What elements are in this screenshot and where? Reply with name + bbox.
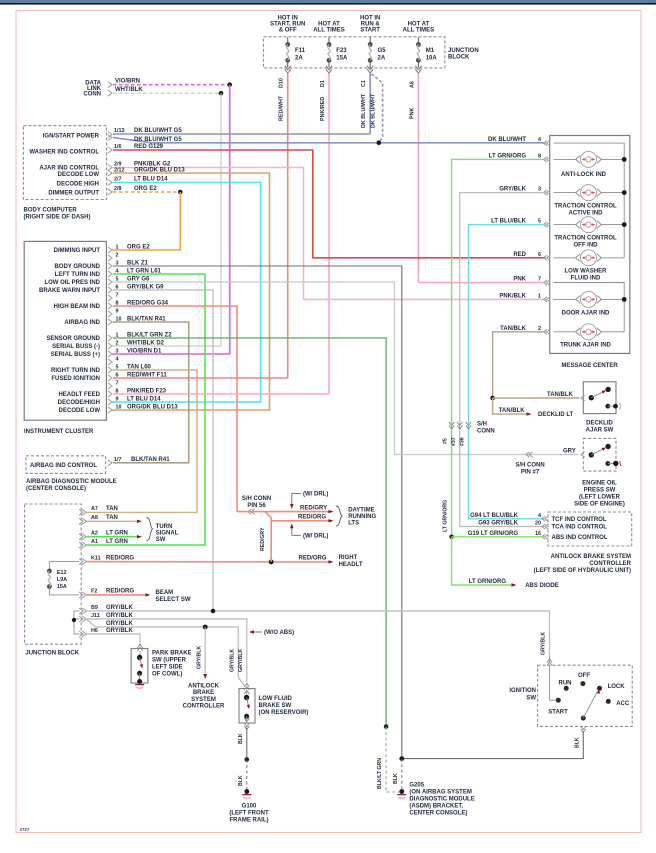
junction block B9 J11 H6 bracket bbox=[73, 611, 75, 634]
message center internal bus pin 7 bbox=[554, 283, 625, 332]
ground G205 bbox=[399, 789, 404, 794]
wire ORG E2 solid to cluster dimming input bbox=[112, 192, 180, 250]
node BLK bbox=[245, 757, 250, 762]
svg-text:DECKLID LT: DECKLID LT bbox=[538, 412, 574, 418]
svg-text:GRY/BLK: GRY/BLK bbox=[106, 613, 133, 619]
svg-text:5: 5 bbox=[538, 219, 541, 225]
svg-text:1/13: 1/13 bbox=[114, 128, 125, 134]
svg-text:RED G129: RED G129 bbox=[134, 144, 164, 150]
svg-text:LT GRN: LT GRN bbox=[106, 531, 128, 537]
svg-text:SW (UPPER: SW (UPPER bbox=[152, 658, 187, 664]
body computer box bbox=[23, 126, 106, 200]
svg-text:IGNITION: IGNITION bbox=[509, 688, 536, 694]
svg-text:DECKLID: DECKLID bbox=[586, 421, 613, 427]
wire GRY/BLK G9 from cluster brake warn to B9 junction bbox=[113, 290, 213, 611]
svg-text:GRY/BLK: GRY/BLK bbox=[106, 621, 133, 627]
decklid ajar sw box bbox=[583, 382, 616, 414]
svg-text:WASHER IND CONTROL: WASHER IND CONTROL bbox=[29, 150, 99, 156]
svg-text:VIO/BRN: VIO/BRN bbox=[115, 79, 140, 85]
svg-text:SW: SW bbox=[526, 696, 536, 702]
wire TAN L60 from cluster right turn to junction block A7 bbox=[87, 370, 198, 512]
svg-text:2: 2 bbox=[116, 340, 119, 346]
svg-text:JUNCTION: JUNCTION bbox=[448, 48, 479, 54]
svg-text:ENGINE OIL: ENGINE OIL bbox=[582, 481, 617, 487]
ignition sw internals bbox=[550, 665, 556, 700]
wire LT BLU D14 from body computer to cluster decode high bbox=[112, 183, 261, 403]
wire DK BLU/WHT dashed branch from fuse G5 bbox=[372, 74, 383, 143]
svg-text:GRY/BLK: GRY/BLK bbox=[499, 187, 526, 193]
instrument cluster box bbox=[24, 241, 106, 420]
svg-text:RED/ORG: RED/ORG bbox=[106, 555, 134, 561]
svg-text:(ASDM) BRACKET,: (ASDM) BRACKET, bbox=[409, 804, 463, 810]
junction block internal fuse E12 L9A 15A bbox=[49, 561, 79, 563]
instrument cluster connector 1 pins bbox=[108, 247, 112, 253]
wire TAN/BLK from message center to decklid ajar sw bbox=[493, 332, 546, 398]
svg-text:2: 2 bbox=[116, 252, 119, 258]
svg-text:2/12: 2/12 bbox=[114, 167, 125, 173]
svg-text:DK BLU/WHT G5: DK BLU/WHT G5 bbox=[134, 137, 182, 143]
wire BLK/TAN R41 from cluster airbag ind to airbag module bbox=[113, 322, 189, 463]
low washer fluid ind lamp bbox=[554, 257, 577, 259]
svg-text:4: 4 bbox=[538, 137, 541, 143]
svg-text:A2: A2 bbox=[91, 531, 98, 537]
svg-text:JUNCTION BLOCK: JUNCTION BLOCK bbox=[25, 651, 79, 657]
svg-text:MESSAGE CENTER: MESSAGE CENTER bbox=[561, 363, 618, 369]
wire TAN/BLK to decklid sw bbox=[493, 397, 580, 399]
svg-text:10: 10 bbox=[116, 404, 122, 410]
wire BLK dashed to G100 bbox=[246, 760, 248, 792]
svg-text:GRY/BLK: GRY/BLK bbox=[541, 632, 547, 655]
svg-text:PARK BRAKE: PARK BRAKE bbox=[152, 651, 192, 657]
svg-text:FRAME RAIL): FRAME RAIL) bbox=[230, 818, 269, 824]
svg-text:F2: F2 bbox=[91, 589, 97, 595]
svg-text:GRY/BLK: GRY/BLK bbox=[229, 649, 235, 672]
svg-text:G100: G100 bbox=[242, 804, 257, 810]
wire TAN/BLK branch to decklid lt bbox=[493, 398, 527, 414]
svg-text:INSTRUMENT CLUSTER: INSTRUMENT CLUSTER bbox=[24, 429, 94, 435]
svg-text:(W/ DRL): (W/ DRL) bbox=[303, 534, 328, 540]
svg-text:ABS IND CONTROL: ABS IND CONTROL bbox=[552, 535, 608, 541]
svg-text:DK BLU/WHT: DK BLU/WHT bbox=[370, 93, 376, 128]
svg-text:BEAM: BEAM bbox=[156, 590, 174, 596]
svg-text:RED/ORG: RED/ORG bbox=[299, 556, 327, 562]
node on ORG E2 bbox=[178, 190, 183, 195]
svg-text:FUSED IGNITION: FUSED IGNITION bbox=[51, 376, 100, 382]
wire VIO/BRN D1 vertical to cluster bbox=[112, 85, 230, 354]
wire F2 RED/ORG to beam select sw bbox=[87, 594, 147, 596]
wire PNK/BLK G2 from body computer to message center door ajar bbox=[113, 168, 546, 300]
svg-text:HEADLT FEED: HEADLT FEED bbox=[58, 392, 100, 398]
svg-text:SW: SW bbox=[156, 537, 166, 543]
svg-text:LOW WASHER: LOW WASHER bbox=[565, 269, 608, 275]
svg-text:ACC: ACC bbox=[616, 701, 630, 707]
svg-text:A8: A8 bbox=[91, 515, 98, 521]
wire GRY/BLK branch to low fluid brake sw bbox=[87, 619, 245, 686]
svg-text:OFF IND: OFF IND bbox=[574, 243, 599, 249]
message center internal bus pin 4 bbox=[554, 143, 625, 258]
svg-text:DECODE/HIGH: DECODE/HIGH bbox=[58, 400, 100, 406]
svg-text:AIRBAG IND: AIRBAG IND bbox=[64, 320, 100, 326]
svg-text:TAN: TAN bbox=[106, 515, 118, 521]
svg-text:GRY/BLK: GRY/BLK bbox=[106, 605, 133, 611]
message center box bbox=[550, 136, 630, 354]
svg-text:DECODE LOW: DECODE LOW bbox=[58, 172, 100, 178]
svg-text:RED: RED bbox=[513, 252, 526, 258]
S/H conn on three ABS wires bbox=[449, 422, 454, 426]
svg-text:PNK/BLK: PNK/BLK bbox=[499, 293, 526, 299]
turn signal sw brace bbox=[147, 518, 153, 541]
svg-text:CENTER CONSOLE): CENTER CONSOLE) bbox=[409, 811, 467, 817]
svg-text:VIO/BRN D1: VIO/BRN D1 bbox=[127, 348, 162, 354]
wire DK BLU/WHT C1 from fuse G5 bbox=[369, 74, 371, 135]
svg-text:9: 9 bbox=[116, 396, 119, 402]
svg-text:BLOCK: BLOCK bbox=[448, 55, 470, 61]
W/ DRL annotation lower bbox=[292, 534, 301, 536]
svg-text:SERIAL BUSS (+): SERIAL BUSS (+) bbox=[51, 352, 100, 358]
svg-text:LTS: LTS bbox=[348, 521, 359, 527]
svg-text:PNK/BLK G2: PNK/BLK G2 bbox=[134, 161, 171, 167]
wire J11 GRY/BLK to low fluid brake sw bbox=[87, 619, 247, 683]
svg-text:CONTROLLER: CONTROLLER bbox=[183, 704, 225, 710]
wire H6 GRY/BLK to park brake sw bbox=[87, 634, 141, 646]
svg-text:BLK Z1: BLK Z1 bbox=[127, 260, 149, 266]
svg-text:LOW FLUID: LOW FLUID bbox=[259, 696, 293, 702]
svg-text:7: 7 bbox=[116, 292, 119, 298]
svg-text:START: START bbox=[360, 28, 380, 34]
wire WHT/BLK from data link conn bbox=[113, 92, 221, 94]
svg-text:SYSTEM: SYSTEM bbox=[191, 697, 216, 703]
node RED/ORG junction bbox=[269, 560, 274, 565]
park brake sw box bbox=[137, 648, 142, 652]
svg-text:DAYTIME: DAYTIME bbox=[348, 508, 374, 514]
svg-text:DECODE HIGH: DECODE HIGH bbox=[57, 182, 99, 188]
svg-text:CONN: CONN bbox=[477, 429, 495, 435]
svg-text:GRY/BLK: GRY/BLK bbox=[106, 628, 133, 634]
wire VIO/BRN from data link conn bbox=[113, 84, 230, 86]
svg-text:SENSOR GROUND: SENSOR GROUND bbox=[46, 336, 100, 342]
svg-text:LT GRN/ORG: LT GRN/ORG bbox=[489, 153, 527, 159]
svg-text:2: 2 bbox=[538, 326, 541, 332]
svg-text:SIDE OF ENGINE): SIDE OF ENGINE) bbox=[574, 502, 625, 508]
wire BLK Z1 from cluster body ground to G205 bbox=[113, 266, 402, 759]
svg-text:ORG/DK BLU D13: ORG/DK BLU D13 bbox=[134, 167, 185, 173]
wire RED/WHT D10 from fuse F11 bbox=[287, 74, 289, 379]
wire K11 RED/ORG to right headlamp bbox=[87, 561, 330, 563]
wire PNK A6 from fuse M1 bbox=[417, 74, 419, 283]
svg-text:DIMMING INPUT: DIMMING INPUT bbox=[54, 248, 101, 254]
svg-text:TCA IND CONTROL: TCA IND CONTROL bbox=[552, 525, 608, 531]
wire RED/ORG to daytime running lts bbox=[265, 512, 271, 562]
wire DK BLU/WHT G5 lower from body computer to message center bbox=[113, 138, 546, 143]
svg-text:BLK/LT GRN: BLK/LT GRN bbox=[377, 758, 383, 789]
svg-text:AIRBAG DIAGNOSTIC MODULE: AIRBAG DIAGNOSTIC MODULE bbox=[26, 479, 117, 485]
svg-text:M1: M1 bbox=[426, 48, 435, 54]
svg-text:3: 3 bbox=[538, 187, 541, 193]
svg-text:BLK: BLK bbox=[574, 737, 580, 748]
node B9/G9 junction bbox=[211, 609, 216, 614]
svg-text:DOOR AJAR IND: DOOR AJAR IND bbox=[562, 311, 610, 317]
svg-text:S/H CONN: S/H CONN bbox=[515, 463, 544, 469]
wire BLK below low fluid sw to G100 bbox=[244, 723, 249, 727]
svg-text:1/6: 1/6 bbox=[114, 144, 122, 150]
svg-text:DIMMER OUTPUT: DIMMER OUTPUT bbox=[48, 191, 99, 197]
svg-text:LOW OIL PRES IND: LOW OIL PRES IND bbox=[44, 280, 100, 286]
svg-text:1/7: 1/7 bbox=[114, 457, 122, 463]
svg-text:2/7: 2/7 bbox=[114, 176, 122, 182]
svg-text:L9A: L9A bbox=[57, 577, 67, 583]
wire DK BLU/WHT G5 upper from body computer to fuse G5 bbox=[113, 133, 370, 135]
svg-text:E12: E12 bbox=[57, 570, 67, 576]
ground G100 bbox=[244, 789, 249, 794]
instrument cluster connector 2 pins bbox=[108, 335, 112, 341]
wire WHT/BLK D2 vertical to cluster bbox=[112, 93, 221, 346]
svg-text:F23: F23 bbox=[336, 48, 347, 54]
svg-text:H6: H6 bbox=[91, 628, 98, 634]
svg-text:RIGHT TURN IND: RIGHT TURN IND bbox=[51, 368, 101, 374]
wire BLK/LT GRN dashed to G205 bbox=[386, 727, 400, 792]
svg-text:RED/GRY: RED/GRY bbox=[260, 527, 266, 551]
svg-text:C1: C1 bbox=[361, 80, 367, 87]
svg-text:LT BLU D14: LT BLU D14 bbox=[134, 176, 168, 182]
svg-text:DK BLU/WHT G5: DK BLU/WHT G5 bbox=[134, 128, 182, 134]
node on WHT/BLK bbox=[219, 91, 224, 96]
wire RED/ORG G34 from cluster high beam down to headlamp circuit bbox=[113, 306, 237, 512]
wire PNK A6 horizontal to message center pin 7 bbox=[418, 282, 545, 284]
svg-text:BODY GROUND: BODY GROUND bbox=[54, 264, 100, 270]
traction control active ind lamp bbox=[554, 192, 577, 194]
wire PNK/RED D1 from fuse F23 bbox=[328, 74, 330, 395]
wire PNK/RED F23 from cluster headlt feed to fuse F23 bbox=[113, 393, 329, 395]
svg-text:G205: G205 bbox=[409, 783, 424, 789]
fuse G5 2A bbox=[369, 37, 371, 44]
svg-text:RED/ORG: RED/ORG bbox=[106, 589, 134, 595]
svg-text:1: 1 bbox=[538, 293, 541, 299]
S/H conn pin 7 chevrons on GRY bbox=[529, 452, 533, 457]
svg-text:WHT/BLK D2: WHT/BLK D2 bbox=[127, 340, 165, 346]
svg-text:OF COWL): OF COWL) bbox=[152, 672, 182, 678]
svg-text:1: 1 bbox=[116, 244, 119, 250]
W/ DRL annotation upper bbox=[292, 492, 301, 494]
svg-text:G93 GRY/BLK: G93 GRY/BLK bbox=[478, 521, 518, 527]
door ajar ind lamp bbox=[554, 298, 577, 300]
svg-text:15A: 15A bbox=[336, 56, 348, 62]
svg-text:(RIGHT SIDE OF DASH): (RIGHT SIDE OF DASH) bbox=[24, 215, 91, 221]
svg-text:LT GRN: LT GRN bbox=[106, 539, 128, 545]
svg-text:ANTI-LOCK IND: ANTI-LOCK IND bbox=[561, 172, 607, 178]
svg-text:#5: #5 bbox=[443, 438, 449, 444]
svg-text:LT GRN/ORG: LT GRN/ORG bbox=[443, 500, 449, 532]
svg-text:TAN/BLK: TAN/BLK bbox=[547, 392, 574, 398]
svg-text:4: 4 bbox=[116, 356, 119, 362]
S/H conn pin 56 on RED/ORG bbox=[251, 509, 255, 514]
svg-text:2727: 2727 bbox=[20, 827, 30, 832]
svg-text:7: 7 bbox=[116, 380, 119, 386]
svg-text:FLUID IND: FLUID IND bbox=[571, 276, 601, 282]
svg-text:ORG E2: ORG E2 bbox=[134, 186, 157, 192]
svg-text:TURN: TURN bbox=[156, 524, 173, 530]
wire BLK/LT GRN Z2 from cluster sensor ground bbox=[113, 338, 386, 727]
svg-text:TAN/BLK: TAN/BLK bbox=[499, 408, 526, 414]
svg-text:ABS DIODE: ABS DIODE bbox=[525, 583, 558, 589]
svg-text:(W/O ABS): (W/O ABS) bbox=[264, 630, 294, 636]
svg-text:TRACTION CONTROL: TRACTION CONTROL bbox=[554, 236, 617, 242]
wire LT GRN/ORG from message center to ABS controller and diode bbox=[452, 159, 546, 536]
svg-text:GRY/BLK: GRY/BLK bbox=[238, 649, 244, 672]
svg-text:G19 LT GRN/ORG: G19 LT GRN/ORG bbox=[468, 531, 519, 537]
svg-text:PNK: PNK bbox=[513, 277, 526, 283]
engine oil press sw box bbox=[583, 438, 616, 471]
svg-text:F11: F11 bbox=[295, 48, 306, 54]
svg-text:TAN/BLK: TAN/BLK bbox=[500, 326, 527, 332]
wire B9 GRY/BLK to ignition switch bbox=[87, 611, 550, 662]
svg-text:BLK: BLK bbox=[238, 775, 244, 786]
wire BLK dashed to ground G205 bbox=[401, 759, 403, 792]
fuse F11 2A bbox=[287, 37, 289, 44]
svg-text:IGN/START POWER: IGN/START POWER bbox=[43, 134, 100, 140]
svg-text:DIAGNOSTIC MODULE: DIAGNOSTIC MODULE bbox=[409, 797, 474, 803]
svg-text:20: 20 bbox=[535, 521, 541, 527]
svg-text:LT BLU/BLK: LT BLU/BLK bbox=[491, 219, 527, 225]
svg-text:(CENTER CONSOLE): (CENTER CONSOLE) bbox=[26, 486, 86, 492]
svg-text:ACTIVE IND: ACTIVE IND bbox=[568, 211, 603, 217]
svg-text:RIGHT: RIGHT bbox=[339, 555, 358, 561]
svg-text:BODY COMPUTER: BODY COMPUTER bbox=[24, 208, 78, 214]
svg-text:TRUNK AJAR IND: TRUNK AJAR IND bbox=[560, 343, 611, 349]
junction block (top fuse box) bbox=[264, 37, 445, 68]
wire ORG/DK BLU D13 from body computer to cluster decode low bbox=[112, 173, 270, 410]
fuse F23 15A bbox=[328, 37, 330, 44]
svg-text:(LEFT FRONT: (LEFT FRONT bbox=[229, 811, 269, 817]
svg-text:DK BLU/WHT: DK BLU/WHT bbox=[488, 137, 526, 143]
svg-text:9: 9 bbox=[116, 308, 119, 314]
svg-text:SIGNAL: SIGNAL bbox=[156, 531, 179, 537]
svg-text:BRAKE SW: BRAKE SW bbox=[259, 703, 292, 709]
node BLK/LT GRN bbox=[384, 724, 389, 729]
svg-text:TCF IND CONTROL: TCF IND CONTROL bbox=[552, 517, 607, 523]
svg-text:7: 7 bbox=[538, 277, 541, 283]
svg-text:3: 3 bbox=[116, 348, 119, 354]
svg-text:(ON AIRBAG SYSTEM: (ON AIRBAG SYSTEM bbox=[409, 790, 471, 796]
svg-text:HIGH BEAM IND: HIGH BEAM IND bbox=[54, 304, 101, 310]
svg-text:DECODE LOW: DECODE LOW bbox=[59, 408, 101, 414]
svg-text:2A: 2A bbox=[378, 56, 386, 62]
svg-text:HEADLT: HEADLT bbox=[339, 562, 363, 568]
svg-text:G5: G5 bbox=[378, 48, 387, 54]
svg-text:CONN: CONN bbox=[83, 92, 101, 98]
junction block left box bbox=[25, 504, 82, 644]
svg-text:SERIAL BUSS (-): SERIAL BUSS (-) bbox=[52, 344, 100, 350]
svg-text:RED/WHT: RED/WHT bbox=[279, 95, 285, 121]
svg-text:#36: #36 bbox=[460, 437, 466, 446]
svg-text:15A: 15A bbox=[57, 584, 67, 590]
wire BLK from ignition sw to G205 bbox=[581, 726, 586, 730]
svg-text:DK BLU/WHT: DK BLU/WHT bbox=[361, 93, 367, 128]
svg-text:K11: K11 bbox=[91, 555, 101, 561]
svg-text:A7: A7 bbox=[91, 506, 98, 512]
svg-text:#37: #37 bbox=[451, 437, 457, 446]
svg-text:2/8: 2/8 bbox=[114, 186, 122, 192]
svg-text:RUNNING: RUNNING bbox=[348, 514, 376, 520]
svg-text:BRAKE WARN INPUT: BRAKE WARN INPUT bbox=[39, 288, 100, 294]
svg-text:LEFT SIDE: LEFT SIDE bbox=[152, 665, 183, 671]
svg-text:PRESS SW: PRESS SW bbox=[584, 488, 616, 494]
svg-text:AJAR IND CONTROL: AJAR IND CONTROL bbox=[39, 166, 99, 172]
svg-text:G94 LT BLU/BLK: G94 LT BLU/BLK bbox=[470, 513, 519, 519]
ignition sw box bbox=[538, 665, 633, 726]
wire RED/GRY to daytime running lts bbox=[237, 511, 329, 513]
svg-text:PNK/RED: PNK/RED bbox=[320, 97, 326, 121]
trunk ajar ind lamp bbox=[554, 331, 577, 333]
svg-text:WHT/BLK: WHT/BLK bbox=[115, 87, 143, 93]
svg-text:TRACTION CONTROL: TRACTION CONTROL bbox=[554, 204, 617, 210]
traction control off ind lamp bbox=[554, 224, 577, 226]
node GRY/BLK to antilock controller bbox=[203, 625, 208, 630]
svg-text:SELECT SW: SELECT SW bbox=[156, 597, 191, 603]
svg-text:PIN #7: PIN #7 bbox=[521, 470, 540, 476]
svg-text:2A: 2A bbox=[295, 56, 303, 62]
node LT GRN/ORG bbox=[449, 535, 454, 540]
wire LT GRN/ORG to ABS diode bbox=[452, 537, 512, 585]
svg-text:TAN: TAN bbox=[106, 506, 118, 512]
svg-text:GRY: GRY bbox=[563, 448, 576, 454]
svg-text:LT GRN/ORG: LT GRN/ORG bbox=[469, 579, 507, 585]
svg-text:LT BLU D14: LT BLU D14 bbox=[127, 396, 161, 402]
wire A8 TAN stub to turn signal sw bbox=[87, 520, 138, 522]
anti-lock ind lamp bbox=[554, 158, 577, 160]
wire GRY/BLK stub to antilock brake system controller bbox=[204, 627, 206, 674]
svg-text:2/9: 2/9 bbox=[114, 161, 122, 167]
svg-text:AIRBAG IND CONTROL: AIRBAG IND CONTROL bbox=[30, 463, 97, 469]
svg-text:ALL TIMES: ALL TIMES bbox=[403, 28, 435, 34]
svg-text:& OFF: & OFF bbox=[279, 28, 297, 34]
svg-text:ALL TIMES: ALL TIMES bbox=[313, 28, 345, 34]
svg-text:(W/ DRL): (W/ DRL) bbox=[303, 492, 328, 498]
svg-text:S/H: S/H bbox=[477, 422, 487, 428]
svg-text:A6: A6 bbox=[409, 81, 415, 88]
svg-text:GRY/BLK: GRY/BLK bbox=[197, 646, 203, 669]
svg-text:RED/ORG: RED/ORG bbox=[298, 515, 326, 521]
wire G19 LT GRN/ORG to ABS ind control bbox=[452, 536, 544, 538]
svg-text:PIN 56: PIN 56 bbox=[247, 503, 266, 509]
junction block pins bbox=[79, 509, 83, 515]
svg-text:LOCK: LOCK bbox=[608, 684, 626, 690]
svg-text:BLK: BLK bbox=[393, 773, 399, 784]
svg-text:4: 4 bbox=[538, 513, 541, 519]
node on VIO/BRN bbox=[227, 82, 232, 87]
svg-text:(ON RESERVOIR): (ON RESERVOIR) bbox=[259, 710, 309, 716]
svg-text:AJAR SW: AJAR SW bbox=[586, 428, 614, 434]
svg-text:D10: D10 bbox=[279, 78, 285, 88]
svg-text:D1: D1 bbox=[320, 80, 326, 87]
wire LT BLU/BLK from message center to ABS controller bbox=[469, 225, 546, 519]
svg-text:PNK: PNK bbox=[409, 108, 415, 119]
svg-text:ANTILOCK: ANTILOCK bbox=[188, 684, 220, 690]
svg-text:OFF: OFF bbox=[578, 673, 590, 679]
top browser chrome bar bbox=[0, 0, 656, 3]
node on DK BLU/WHT at dashed junction bbox=[377, 141, 382, 146]
wire ORG E2 dashed from body computer dimmer output bbox=[113, 191, 180, 193]
svg-text:(LEFT SIDE OF HYDRAULIC UNIT): (LEFT SIDE OF HYDRAULIC UNIT) bbox=[534, 568, 631, 574]
svg-text:16: 16 bbox=[535, 531, 541, 537]
wire LT GRN L61 from cluster left turn to junction block A1 bbox=[87, 274, 206, 545]
svg-text:(LEFT LOWER: (LEFT LOWER bbox=[579, 495, 621, 501]
svg-text:LEFT TURN IND: LEFT TURN IND bbox=[55, 272, 101, 278]
svg-text:START: START bbox=[548, 710, 568, 716]
svg-text:CONTROLLER: CONTROLLER bbox=[589, 561, 631, 567]
low fluid brake sw box bbox=[244, 687, 249, 691]
svg-text:A1: A1 bbox=[91, 539, 98, 545]
wire A2 LT GRN stub to turn signal sw bbox=[87, 536, 138, 538]
